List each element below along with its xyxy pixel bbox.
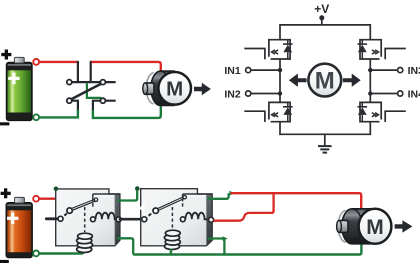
svg-text:M: M — [166, 78, 183, 101]
wire +V stub — [321, 18, 323, 25]
switch S1 contact top-right — [100, 80, 105, 85]
battery BT1 (green) — [6, 57, 32, 120]
arrow motor M3 rotation — [395, 220, 413, 232]
relay K1 armature pivot — [67, 208, 72, 213]
relay K1 hinge dash — [64, 213, 67, 215]
wire link relay K1 to relay K2 — [119, 218, 145, 221]
relay K2 armature pivot — [153, 208, 158, 213]
inductor relay K1 contact-side — [91, 213, 117, 222]
wire green relay K2 top to red bus — [208, 193, 229, 199]
wire green relay K2 coil branch — [170, 249, 172, 255]
node BT2 negative terminal — [33, 251, 39, 257]
node BT1 negative terminal — [33, 114, 39, 120]
switch S1 lever (crossed) — [71, 84, 101, 99]
svg-text:M: M — [315, 68, 335, 95]
coil relay K1 (solenoid spring) — [77, 233, 93, 252]
ground — [318, 146, 332, 153]
wire IN1 to left leg — [251, 69, 280, 71]
wire bottom rail — [280, 122, 370, 135]
wire red BT2+ to relay K1 — [39, 197, 57, 199]
arrow motor M2 right — [343, 74, 361, 87]
relay K1 fixed contact edge — [92, 194, 94, 207]
wire green BT2- to relay K1 coil — [39, 249, 84, 254]
wire black riser pole A — [77, 61, 79, 82]
wire IN4 to right leg — [370, 93, 397, 95]
node junction green bottom bus — [223, 236, 228, 241]
svg-text:IN1: IN1 — [224, 65, 241, 77]
coil relay K2 (solenoid spring) — [164, 230, 180, 249]
node junction right leg IN4 — [368, 91, 372, 95]
wire red BT1+ to switch S1 — [39, 61, 77, 63]
node junction right leg IN3 — [368, 68, 372, 72]
transistor Q3 (bottom-left MOSFET) — [244, 102, 292, 122]
node IN1 terminal — [246, 68, 251, 73]
relay K2 fixed contact edge — [182, 194, 184, 207]
switch S1 bottom-right stubs — [93, 101, 116, 111]
node IN4 terminal — [398, 91, 403, 96]
arrow motor M1 rotation — [194, 83, 211, 96]
switch S1 contact top-left — [67, 80, 72, 85]
switch S1 contact bottom-left — [67, 98, 72, 103]
wire green relay K2 lower to bottom bus — [208, 239, 225, 255]
relay K1 body — [56, 189, 120, 246]
wire right leg upper — [369, 59, 371, 102]
node IN3 terminal — [398, 68, 403, 73]
relay K2 mechanical link (dashed) — [171, 207, 173, 231]
svg-text:+V: +V — [314, 2, 329, 16]
transistor Q1 (top-left MOSFET) — [244, 40, 292, 60]
battery BT1 plus symbol — [1, 50, 11, 60]
arrow motor M2 left — [289, 74, 307, 87]
node relay K2 top-left junction dot — [135, 186, 140, 191]
battery BT2 plus symbol — [1, 188, 11, 198]
node junction left leg IN2 — [278, 91, 282, 95]
relay K2 hinge dash — [149, 214, 152, 216]
wire green relay K1 lower to bottom bus — [117, 238, 133, 254]
wire red switch S1 to motor M1 — [92, 62, 161, 72]
node relay K2 right terminal — [209, 217, 214, 222]
motor M1 — [143, 71, 191, 105]
wire red top bus to motor M3 — [231, 193, 362, 208]
transistor Q4 (bottom-right MOSFET) — [358, 102, 406, 122]
wire green switch S1 to motor M1 — [93, 105, 161, 118]
relay K2 armature lever — [158, 197, 184, 209]
battery BT2 minus symbol — [0, 260, 9, 263]
wire IN2 to left leg — [251, 93, 280, 95]
switch S1 contact bottom-right — [100, 98, 105, 103]
switch S1 top bar — [72, 81, 116, 83]
node BT1 positive terminal — [33, 59, 39, 65]
switch S1 bottom-left stub — [72, 101, 78, 111]
wire green bottom bus to motor M3 — [133, 243, 361, 254]
relay K2 body — [139, 189, 212, 246]
node junction left leg IN1 — [278, 68, 282, 72]
transistor Q2 (top-right MOSFET) — [358, 40, 406, 60]
relay K1 mechanical link (dashed) — [84, 207, 86, 232]
svg-text:IN3: IN3 — [408, 65, 420, 77]
node BT2 positive terminal — [33, 196, 39, 202]
wire red relay K2 middle terminal to red bus — [214, 193, 274, 221]
switch S1 green jumper to lower right contact — [87, 83, 102, 99]
motor M2 (H-bridge center) — [308, 64, 341, 97]
node relay K1 right terminal — [116, 217, 121, 222]
svg-text:M: M — [366, 216, 384, 239]
wire IN3 to right leg — [370, 69, 397, 71]
battery BT2 (red) — [6, 197, 32, 257]
motor M3 — [337, 209, 392, 244]
relay K2 switch common contact — [142, 217, 147, 222]
battery BT1 minus symbol — [0, 122, 9, 125]
wire left leg upper — [279, 59, 281, 102]
wire ground stub — [324, 134, 326, 146]
node junction green-red top bus — [229, 191, 234, 196]
relay K1 armature lever — [72, 200, 96, 209]
relay K1 switch common contact — [58, 216, 63, 221]
relay K1 common terminal stub — [46, 217, 60, 220]
wire black riser pole B — [90, 61, 92, 82]
wire top rail — [280, 25, 370, 40]
node IN2 terminal — [246, 91, 251, 96]
svg-text:IN4: IN4 — [408, 88, 420, 100]
inductor relay K2 contact-side — [180, 213, 207, 222]
wire green BT1- to switch S1 — [39, 110, 78, 117]
wire green relay K1 to relay K2 top — [117, 191, 137, 201]
node relay K1 top-left junction dot — [54, 187, 59, 192]
node +V junction dot — [319, 15, 324, 20]
svg-text:IN2: IN2 — [224, 88, 241, 100]
